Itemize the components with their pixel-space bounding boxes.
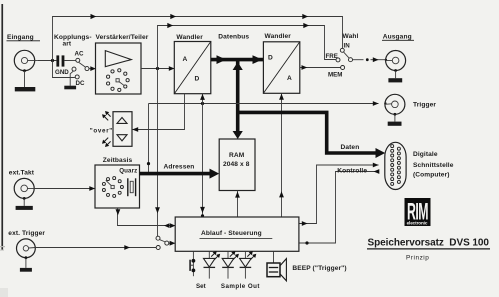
svg-text:Eingang: Eingang — [7, 34, 34, 41]
ground at J4 — [16, 198, 33, 210]
wire Kontrolle in — [299, 169, 379, 244]
node amplifier output — [156, 67, 159, 70]
converter D/A U2 — [263, 42, 299, 94]
svg-text:D: D — [268, 54, 273, 61]
svg-text:Wandler: Wandler — [265, 33, 292, 40]
svg-text:Schnittstelle: Schnittstelle — [413, 162, 454, 169]
svg-text:RAM: RAM — [229, 152, 245, 159]
LED D1 — [204, 251, 221, 279]
wire D/A control vertical — [279, 93, 284, 217]
wire RAM control vertical — [235, 191, 240, 218]
capacitor coupling — [56, 55, 64, 66]
svg-text:Zeitbasis: Zeitbasis — [103, 157, 133, 164]
ground at J1 — [15, 71, 36, 92]
svg-text:(Computer): (Computer) — [413, 172, 450, 179]
connector J1 Eingang (BNC) — [14, 50, 37, 72]
svg-text:DC: DC — [76, 80, 85, 87]
wire A/D control vertical — [200, 94, 205, 218]
bus Datenbus vertical to RAM — [233, 61, 243, 139]
svg-text:"over": "over" — [90, 128, 113, 135]
svg-text:ext.Takt: ext.Takt — [9, 169, 35, 176]
node clock junction — [201, 102, 204, 105]
svg-text:Datenbus: Datenbus — [218, 34, 249, 41]
switch trigger source — [156, 236, 169, 249]
svg-text:Prinzip: Prinzip — [406, 254, 429, 261]
logo RIM electronic — [405, 198, 431, 226]
svg-text:Verstärker/Teiler: Verstärker/Teiler — [96, 34, 149, 41]
connector J5 ext.Trigger (BNC) — [17, 239, 36, 259]
bus Datenbus horizontal — [211, 55, 264, 64]
svg-text:MEM: MEM — [328, 72, 342, 79]
wire DC bypass — [53, 61, 75, 78]
amplifier Verstaerker/Teiler — [96, 43, 142, 94]
svg-text:Daten: Daten — [341, 144, 360, 151]
RAM U3 — [219, 139, 255, 191]
wire internal trigger vertical — [155, 69, 160, 237]
connector J2 Ausgang (BNC) — [386, 51, 406, 72]
LED D2 — [222, 251, 239, 279]
svg-text:2048 x 8: 2048 x 8 — [223, 161, 250, 168]
wire control to speaker — [273, 252, 275, 263]
converter A/D U1 — [174, 42, 211, 94]
svg-text:Speichervorsatz DVS 100: Speichervorsatz DVS 100 — [368, 238, 490, 249]
svg-text:Sample Out: Sample Out — [221, 283, 260, 290]
connector J6 digital interface — [385, 142, 406, 189]
wire trigger output line — [149, 101, 387, 106]
bus Daten to interface — [239, 112, 385, 158]
svg-text:Adressen: Adressen — [164, 164, 195, 171]
time base Zeitbasis — [95, 165, 140, 208]
wire ext.Trigger to switch — [35, 245, 156, 250]
wire input to Wahl IN contact (top line) — [53, 14, 343, 61]
pushbutton Set — [189, 252, 195, 277]
wire D/A output to MEM contact — [300, 65, 341, 70]
label Digitale Schnittstelle (Computer) — [413, 151, 454, 178]
svg-text:A: A — [287, 75, 292, 82]
svg-text:Kontrolle: Kontrolle — [337, 167, 367, 174]
LED rays at over top — [102, 111, 111, 120]
svg-text:Set: Set — [196, 283, 206, 290]
LED rays at over bottom — [102, 138, 111, 147]
node input junction — [51, 59, 54, 62]
svg-text:Digitale: Digitale — [413, 151, 438, 158]
connector J4 ext.Takt (BNC) — [14, 178, 34, 199]
wire amplifier output to A/D — [141, 66, 175, 71]
switch Wahl — [336, 48, 353, 69]
wire Zeitbasis clock to control — [116, 208, 176, 228]
indicator over — [113, 112, 132, 147]
wire trigger switch to control — [169, 241, 176, 246]
svg-text:Ausgang: Ausgang — [383, 33, 412, 40]
svg-text:ext. Trigger: ext. Trigger — [8, 230, 45, 237]
svg-text:electronic: electronic — [407, 221, 428, 226]
svg-text:art: art — [63, 40, 72, 47]
svg-text:FRE: FRE — [326, 53, 338, 60]
svg-text:GND: GND — [55, 69, 69, 76]
LED D3 — [240, 251, 257, 279]
ground at J5 — [20, 258, 32, 272]
ground at J3 — [388, 114, 402, 125]
title Speichervorsatz DVS 100 — [367, 238, 490, 249]
connector J3 Trigger (BNC) — [385, 94, 405, 115]
svg-text:IN: IN — [344, 43, 351, 50]
svg-text:Quarz: Quarz — [119, 167, 137, 174]
wire A/D to over indicator — [132, 94, 185, 132]
quartz crystal — [128, 178, 136, 196]
svg-text:Ablauf - Steuerung: Ablauf - Steuerung — [201, 230, 262, 237]
ground at J2 — [388, 71, 402, 83]
svg-text:A: A — [183, 56, 188, 63]
wire switch common to amplifier — [89, 66, 96, 71]
label Ausgang — [382, 33, 414, 40]
speaker BEEP — [267, 259, 286, 281]
label Eingang — [7, 34, 41, 41]
wire address clock vertical — [147, 104, 150, 174]
switch Kopplungsart — [72, 58, 89, 79]
wire capacitor to AC contact — [64, 59, 75, 61]
bus Adressen — [140, 169, 220, 179]
control unit Ablauf-Steuerung — [175, 217, 299, 251]
label Kopplungs-art — [54, 34, 92, 48]
svg-text:Kopplungs-: Kopplungs- — [54, 34, 92, 41]
wire ext.Takt to Zeitbasis — [34, 186, 95, 191]
svg-text:Trigger: Trigger — [413, 102, 436, 109]
ground at coupling GND — [64, 71, 76, 89]
svg-text:AC: AC — [75, 50, 84, 57]
svg-text:Wandler: Wandler — [176, 34, 203, 41]
svg-text:D: D — [195, 76, 200, 83]
svg-text:BEEP ("Trigger"): BEEP ("Trigger") — [292, 265, 346, 272]
wire Kontrolle out — [299, 163, 379, 226]
wire dash-dot to Ausgang — [353, 57, 387, 62]
wire J1 to coupling capacitor — [37, 60, 56, 62]
wire amplifier output to FRE contact — [158, 23, 336, 69]
svg-text:Wahl: Wahl — [343, 33, 359, 40]
